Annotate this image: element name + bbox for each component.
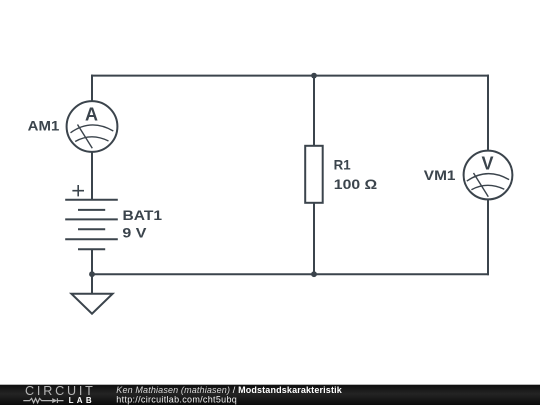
wire: AM1 bottom to BAT1 plus plate: [91, 151, 93, 199]
BAT1 plus polarity mark: [72, 185, 84, 196]
VM1 dial arcs: [467, 174, 509, 181]
wire: R1 top lead: [313, 75, 315, 146]
svg-text:VM1: VM1: [424, 168, 456, 183]
BAT1 cell plates: [65, 199, 118, 201]
wire: VM1 top lead: [487, 75, 489, 151]
node: R1 top junction: [311, 73, 317, 79]
VM1 meter body: [464, 151, 513, 200]
node: ground junction: [89, 271, 95, 277]
ammeter AM1: [28, 101, 118, 152]
node: R1 bottom junction: [311, 271, 317, 277]
AM1 meter body: [67, 101, 118, 152]
R1 body: [305, 146, 323, 203]
wire: VM1 bottom lead: [487, 199, 489, 275]
AM1 dial arcs: [71, 125, 114, 133]
VM1 needle: [474, 173, 489, 197]
logo CircuitLab: [23, 384, 95, 405]
wire: R1 bottom lead: [313, 203, 315, 275]
svg-text:V: V: [481, 153, 493, 173]
svg-text:BAT1: BAT1: [123, 208, 163, 223]
svg-text:R1: R1: [334, 158, 351, 173]
svg-text:A: A: [85, 105, 98, 125]
svg-text:LAB: LAB: [69, 396, 95, 405]
logo resistor zigzag: [23, 398, 63, 403]
voltmeter VM1: [424, 151, 513, 200]
svg-text:9 V: 9 V: [122, 226, 147, 241]
svg-text:100 Ω: 100 Ω: [334, 177, 377, 192]
logo diode symbol: [52, 398, 57, 403]
footer credit text: [116, 385, 342, 405]
wire: ground stem: [91, 274, 93, 294]
wire: top rail: [91, 75, 489, 77]
label BAT1 value: [122, 208, 162, 241]
AM1 needle: [78, 125, 93, 149]
svg-text:AM1: AM1: [28, 119, 60, 134]
ground: [71, 294, 112, 314]
wire: AM1 top lead: [91, 75, 93, 102]
resistor R1: [305, 146, 377, 203]
svg-text:Ken Mathiasen (mathiasen) / Mo: Ken Mathiasen (mathiasen) / Modstandskar…: [116, 385, 342, 395]
wire: bottom rail: [91, 273, 489, 275]
wire: BAT1 bottom lead to bottom rail: [91, 249, 93, 274]
battery BAT1: [65, 185, 118, 249]
svg-text:http://circuitlab.com/cht5ubq: http://circuitlab.com/cht5ubq: [116, 395, 237, 405]
